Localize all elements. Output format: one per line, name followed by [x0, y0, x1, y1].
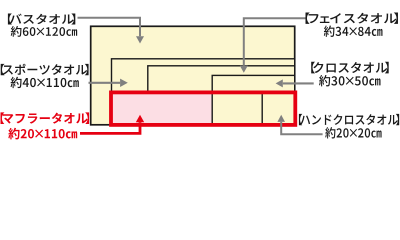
label 約60×120cm [11, 26, 77, 37]
leader arrow for cross towel label [276, 79, 314, 87]
label 【ハンドクロスタオル】 [299, 114, 399, 125]
label 約34×84cm [324, 26, 383, 37]
cross towel rectangle (クロスタオル 30x50) [212, 75, 295, 124]
label 【マフラータオル】 (red) [0, 112, 89, 124]
label 【クロスタオル】 [311, 62, 388, 74]
label 約20×110cm (red) [8, 128, 77, 140]
bath towel rectangle (バスタオル 60x120) [91, 26, 295, 125]
muffler towel pink fill (マフラータオル 20x110) [110, 92, 295, 125]
label 【スポーツタオル】 [1, 64, 89, 75]
leader arrow for face towel label [240, 18, 306, 73]
label 約30×50cm [319, 75, 380, 86]
leader arrow for muffler towel label (red) [80, 115, 144, 134]
leader arrow for bath towel label [78, 18, 145, 44]
leader arrow for sports towel label [89, 79, 128, 87]
label 【バスタオル】 [8, 13, 75, 24]
hand cross towel square (ハンドクロスタオル 20x20) [262, 92, 295, 125]
label 約20×20cm [325, 127, 381, 138]
face towel rectangle (フェイスタオル 34x84) [148, 66, 295, 125]
leader arrow for hand cross towel label [277, 115, 322, 135]
sports towel rectangle (スポーツタオル 40x110) [112, 59, 295, 125]
label 約40×110cm [11, 77, 79, 88]
muffler towel red border [111, 92, 295, 125]
label 【フェイスタオル】 [306, 13, 398, 24]
